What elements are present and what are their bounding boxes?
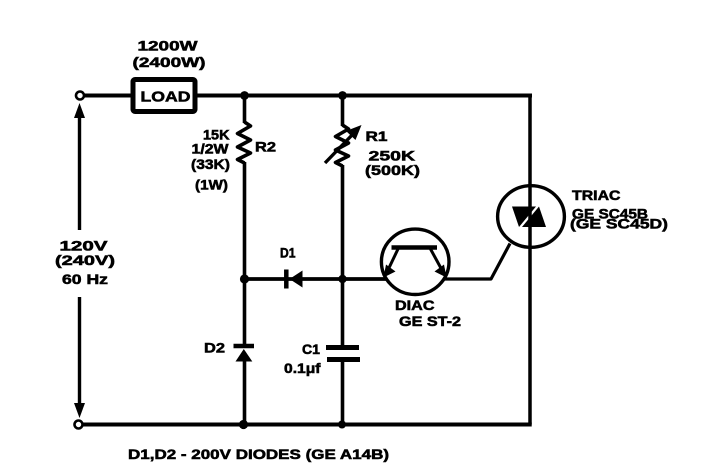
svg-text:1200W: 1200W	[138, 39, 198, 54]
svg-text:D1: D1	[280, 246, 296, 261]
svg-text:D2: D2	[204, 340, 225, 356]
wire R2 branch upper	[243, 96, 247, 124]
wire middle branch mid	[341, 165, 345, 346]
triac symbol	[512, 207, 546, 228]
wire bottom main	[82, 423, 532, 427]
triac circle	[498, 186, 565, 248]
resistor R2 zigzag	[238, 122, 251, 163]
svg-text:(500K): (500K)	[365, 163, 420, 178]
svg-text:R2: R2	[255, 140, 276, 155]
junction dot D1 middle	[338, 275, 346, 283]
svg-text:(GE SC45D): (GE SC45D)	[570, 217, 668, 232]
diac circle	[381, 229, 449, 294]
svg-text:1/2W: 1/2W	[192, 142, 229, 157]
wire diac to gate	[445, 244, 511, 280]
wire D1 horizontal	[245, 277, 387, 281]
svg-text:120V: 120V	[60, 239, 108, 254]
wire top main segment	[196, 94, 532, 98]
load LOAD box	[133, 80, 195, 112]
svg-text:R1: R1	[366, 129, 389, 144]
source arrow upper	[74, 103, 85, 230]
terminal circle bottom left	[75, 421, 83, 429]
junction dot D1 left	[240, 274, 249, 283]
svg-text:(2400W): (2400W)	[133, 55, 206, 70]
junction dot top middle	[338, 91, 347, 100]
diode D2	[234, 346, 255, 362]
terminal circle top left	[76, 92, 84, 100]
svg-text:(33K): (33K)	[191, 157, 230, 172]
wire middle branch upper	[341, 96, 345, 127]
label 1200W (2400W)	[133, 39, 206, 71]
wire R2 branch middle	[243, 162, 247, 345]
label R2	[255, 140, 276, 155]
svg-text:(240V): (240V)	[55, 253, 115, 268]
wire middle branch lower	[341, 361, 345, 425]
note D1,D2 diodes	[128, 447, 389, 462]
svg-text:15K: 15K	[203, 128, 230, 143]
capacitor C1	[326, 348, 360, 360]
wire top left segment	[82, 94, 132, 98]
label 120V (240V) 60Hz	[55, 239, 115, 288]
svg-text:(1W): (1W)	[195, 178, 228, 193]
svg-text:D1,D2 - 200V DIODES (GE A14B): D1,D2 - 200V DIODES (GE A14B)	[128, 447, 389, 462]
label R1 250K (500K)	[365, 129, 420, 178]
label D2	[204, 340, 225, 356]
label C1 0.1uf	[284, 342, 321, 376]
wire right vertical	[528, 96, 532, 425]
potentiometer R1 arrow	[325, 125, 362, 163]
svg-text:0.1μf: 0.1μf	[284, 361, 321, 376]
diode D1	[286, 270, 302, 289]
junction dot top R2	[240, 91, 249, 100]
source arrow lower	[74, 297, 85, 418]
label DIAC GE ST-2	[395, 298, 461, 329]
svg-text:GE ST-2: GE ST-2	[399, 314, 461, 329]
label 15K 1/2W (33K) (1W)	[191, 128, 230, 193]
svg-text:TRIAC: TRIAC	[572, 188, 621, 203]
svg-text:250K: 250K	[369, 149, 416, 164]
junction dot bottom R2	[239, 420, 248, 429]
junction dot bottom middle	[338, 421, 346, 429]
label D1	[280, 246, 296, 261]
svg-text:LOAD: LOAD	[141, 89, 191, 106]
svg-text:60 Hz: 60 Hz	[62, 272, 108, 287]
potentiometer R1 zigzag	[336, 125, 349, 166]
label TRIAC GE SC45B (GE SC45D)	[570, 188, 668, 232]
wire R2 branch lower	[243, 361, 247, 425]
diac symbol	[384, 248, 447, 278]
svg-text:DIAC: DIAC	[395, 298, 435, 313]
svg-text:C1: C1	[302, 342, 321, 357]
